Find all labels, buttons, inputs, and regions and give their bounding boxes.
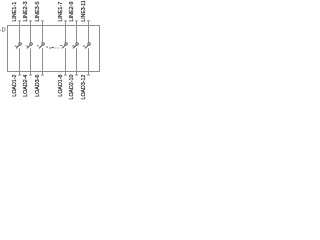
switch S3 contact circle bbox=[42, 43, 44, 45]
wire load side 3 bbox=[42, 48, 44, 75]
gang link dash e bbox=[49, 47, 51, 49]
switch S5 contact circle bbox=[76, 43, 78, 45]
svg-text:LINE3-11: LINE3-11 bbox=[81, 0, 87, 21]
pole 6: LINE3-11 / LOAD3-12 bbox=[81, 0, 90, 99]
svg-text:LINE1-7: LINE1-7 bbox=[58, 2, 64, 22]
svg-text:LINE1-1: LINE1-1 bbox=[12, 2, 18, 22]
pole 5: LINE2-9 / LOAD2-10 bbox=[69, 1, 78, 99]
switch S2 contact circle bbox=[30, 43, 32, 45]
gang link dash i bbox=[60, 45, 62, 47]
switch S1 contact circle bbox=[19, 43, 21, 45]
pole 4: LINE1-7 / LOAD1-8 bbox=[58, 2, 67, 97]
wire load side 1 bbox=[19, 48, 21, 75]
gang link dash j bbox=[72, 45, 74, 47]
gang link dash a bbox=[15, 46, 86, 49]
pole 2: LINE2-3 / LOAD2-4 bbox=[23, 1, 32, 96]
wire load side 2 bbox=[30, 48, 32, 75]
terminal tick 9 bbox=[75, 20, 78, 22]
switch S2 blade bbox=[27, 45, 31, 49]
gang link dash g bbox=[55, 47, 57, 49]
switch S4 blade bbox=[62, 45, 66, 49]
terminal tick 3 bbox=[29, 20, 32, 22]
switch S1 blade bbox=[16, 45, 20, 49]
terminal tick 1 bbox=[18, 20, 21, 22]
wire line side 2 bbox=[30, 21, 32, 43]
terminal tick 5 bbox=[41, 20, 44, 22]
terminal tick 4 bbox=[29, 74, 32, 76]
terminal tick 8 bbox=[64, 74, 67, 76]
gang link dash f bbox=[52, 47, 54, 49]
svg-text:LOAD1-2: LOAD1-2 bbox=[12, 75, 18, 97]
svg-text:LINE2-9: LINE2-9 bbox=[69, 1, 75, 21]
terminal tick 2 bbox=[18, 74, 21, 76]
terminal tick 11 bbox=[87, 20, 90, 22]
wire line side 5 bbox=[76, 21, 78, 43]
switch S4 contact circle bbox=[65, 43, 67, 45]
gang link dash h bbox=[58, 47, 60, 49]
wire line side 4 bbox=[65, 21, 67, 43]
switch S5 blade bbox=[73, 45, 77, 49]
wire line side 3 bbox=[42, 21, 44, 43]
svg-text:LINE2-3: LINE2-3 bbox=[23, 1, 29, 21]
svg-text:LINE3-5: LINE3-5 bbox=[35, 1, 41, 21]
wire load side 6 bbox=[88, 48, 90, 75]
gang link dash c bbox=[37, 45, 39, 47]
terminal tick 7 bbox=[64, 20, 67, 22]
wire line side 6 bbox=[88, 21, 90, 43]
wire load side 4 bbox=[65, 48, 67, 75]
pole 1: LINE1-1 / LOAD1-2 bbox=[12, 2, 21, 97]
svg-text:LOAD3-6: LOAD3-6 bbox=[35, 75, 41, 97]
svg-text:LOAD2-10: LOAD2-10 bbox=[69, 75, 75, 100]
switch S6 blade bbox=[85, 45, 89, 49]
switch S3 blade bbox=[39, 45, 43, 49]
gang link dash k bbox=[83, 45, 85, 47]
terminal tick 12 bbox=[87, 74, 90, 76]
terminal tick 10 bbox=[75, 74, 78, 76]
gang link dash d bbox=[46, 46, 48, 48]
pole 3: LINE3-5 / LOAD3-6 bbox=[35, 1, 44, 96]
terminal tick 6 bbox=[41, 74, 44, 76]
svg-text:-D: -D bbox=[0, 28, 6, 34]
switch S6 contact circle bbox=[88, 43, 90, 45]
enclosure box bbox=[8, 26, 100, 72]
wire line side 1 bbox=[19, 21, 21, 43]
gang link dash b bbox=[26, 45, 28, 47]
svg-text:LOAD1-8: LOAD1-8 bbox=[58, 75, 64, 97]
svg-text:LOAD2-4: LOAD2-4 bbox=[23, 75, 29, 97]
svg-text:LOAD3-12: LOAD3-12 bbox=[81, 75, 87, 100]
wire load side 5 bbox=[76, 48, 78, 75]
